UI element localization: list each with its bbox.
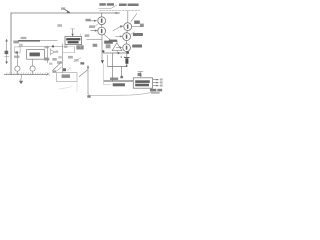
node blob at its bottom: [120, 76, 123, 78]
tube V3 circle: [124, 23, 132, 31]
node arrow into V4: [116, 35, 121, 37]
node junction blob right: [126, 51, 129, 54]
node arrow into V5: [116, 46, 120, 48]
node smudge top of that wire: [45, 46, 49, 48]
switch S2 arm: [79, 70, 87, 77]
wire vertical 62.6: [62, 44, 64, 73]
output arrow 1: [153, 79, 157, 81]
ground bus hatch ticks: [6, 73, 48, 75]
power supply text line 1: [135, 80, 150, 83]
wire faint below box: [76, 82, 78, 92]
tape label smudge: [21, 37, 27, 39]
wire left vertical main: [10, 13, 12, 75]
note SEE FIGURE text block 2: [119, 4, 127, 7]
node 20 label smudge: [13, 41, 18, 44]
wire bus 53: [103, 52, 128, 54]
tube V1 element: [101, 19, 103, 23]
node 12 label smudge under wire: [57, 24, 62, 27]
tape strip dark band: [18, 40, 57, 42]
motor box M1: [27, 50, 45, 60]
node arrow into V3: [113, 26, 121, 30]
tube V5 element: [126, 46, 128, 50]
node junction blob left: [102, 50, 105, 53]
node 30 label smudge: [61, 7, 65, 9]
lamp L2 wire: [32, 59, 34, 74]
wire V1-V2: [101, 25, 103, 28]
note SEE FIGURE text block 1: [99, 3, 105, 5]
wire faint vertical right of record box: [80, 34, 82, 48]
node 36 label smudge: [134, 21, 140, 24]
record box top stub tick: [71, 28, 75, 30]
lamp L1 circle: [15, 66, 20, 71]
tube V5 circle: [123, 44, 131, 52]
node smudge below record box: [64, 46, 68, 48]
record box arrowhead down: [71, 34, 73, 37]
wire battery to h-line: [126, 64, 128, 67]
battery B1 body: [125, 58, 128, 64]
wire bottom long return: [88, 92, 152, 95]
node smudge right of record box: [76, 45, 83, 49]
node 102 lead diagonal: [104, 34, 111, 39]
node corner dot: [126, 65, 128, 67]
node junction dot: [117, 52, 119, 54]
node smudge mid right: [93, 44, 98, 47]
power supply box U1: [133, 78, 152, 88]
arrow down on column: [101, 60, 104, 64]
power supply text line 2: [135, 84, 149, 87]
wire arrowhead right end of top wire: [116, 12, 120, 14]
output arrow 2: [153, 82, 157, 84]
tube V1 circle: [98, 17, 106, 25]
node smudge above lamp L1: [14, 56, 19, 58]
node cross mark near bus end: [47, 73, 50, 76]
node dots below bus: [121, 56, 123, 58]
record box text line2: [68, 41, 79, 43]
guide line lower: [18, 46, 63, 48]
battery B1 top plate: [125, 57, 130, 59]
node 18 label blob: [5, 51, 9, 54]
label smudges middle band: [44, 58, 49, 61]
node label smudge above line 81: [110, 78, 118, 81]
wire stub right of motor box: [45, 57, 48, 59]
wire horizontal 66.5: [108, 66, 127, 68]
tube V3 element: [127, 25, 128, 29]
node 41 label smudge: [133, 33, 143, 36]
node 10 label smudge: [85, 19, 90, 22]
wire main top horizontal: [11, 12, 120, 14]
arrow double vertical left: [6, 41, 8, 61]
wire below V2: [101, 35, 103, 62]
motor text smudge: [30, 53, 40, 57]
node smudge left of arm: [52, 70, 56, 72]
wire V3-V4: [126, 31, 129, 33]
wire faint continuation down: [103, 64, 110, 85]
wire vertical right of motor box: [47, 46, 49, 63]
battery B1 drop wire: [126, 53, 128, 57]
wire horizontal into column at 39.5: [87, 39, 102, 41]
node dark dot on guide line: [52, 45, 54, 47]
box low text smudge: [62, 74, 70, 78]
output arrow 3: [153, 85, 157, 87]
node 36 lead diagonal: [131, 14, 137, 22]
wire triangle apex stub: [116, 40, 118, 43]
amplifier triangle: [112, 43, 122, 51]
node dot cluster above box: [63, 68, 66, 71]
wire V5 to bus: [126, 52, 128, 54]
wire dark line 81: [104, 80, 133, 82]
node label smudge at end: [140, 24, 144, 27]
wire faint wisp below box: [59, 87, 72, 90]
node label blob above box: [138, 73, 142, 76]
node 44 label smudge above triangle: [109, 40, 117, 42]
wire vertical 121.6: [121, 67, 123, 78]
wire vertical 74.6: [74, 47, 76, 53]
lamp L2 circle: [30, 66, 35, 71]
switch S2 vertical with arrow up: [87, 68, 89, 94]
ground blob bottom of S2: [87, 95, 90, 98]
wire vertical 112.6 long: [112, 53, 114, 81]
record box text line1: [66, 38, 80, 40]
node label smudge lower: [113, 83, 125, 86]
wire V4-V5: [126, 41, 128, 44]
node 10 arrow into V1: [88, 20, 95, 22]
node 43 label smudge: [132, 45, 142, 48]
note FIG label smudge bottom right: [150, 89, 156, 92]
box low middle: [57, 73, 77, 82]
wire dashed reference line: [100, 10, 140, 12]
tube V2 element: [101, 29, 103, 33]
switch S1 arm: [53, 63, 61, 71]
node smudge near switch: [80, 62, 84, 64]
tube V3 top vertical from dashed line: [127, 11, 129, 23]
node 42 label smudge left of triangle: [106, 44, 111, 48]
node arrow into V2: [91, 30, 95, 32]
wire V3 right output: [132, 26, 142, 28]
wire vertical 107.6: [107, 55, 109, 66]
lamp L1 wire: [16, 54, 18, 75]
record box top stub wire: [72, 29, 74, 37]
tube V2 circle: [98, 27, 106, 35]
component small box on lamp line: [15, 47, 20, 53]
node 30 lead arrow to top wire: [64, 9, 70, 13]
record box R1: [65, 37, 82, 45]
note lead line under text 1: [99, 8, 111, 10]
node 41 label lead: [131, 32, 135, 34]
wire horizontal 52.6: [63, 52, 75, 54]
tube V4 circle: [123, 33, 131, 41]
wire vertical to tube V1: [101, 13, 103, 17]
node A label smudge with lead: [89, 25, 95, 28]
tube V4 element: [126, 35, 128, 39]
ground bus hatched: [4, 74, 48, 76]
node 102 label smudge: [104, 41, 113, 44]
wire triangle base to bus: [116, 51, 119, 53]
transistor Q1 strokes: [51, 50, 56, 53]
ground symbol under bus: [21, 75, 22, 81]
wire into box top with arrow: [138, 71, 143, 73]
